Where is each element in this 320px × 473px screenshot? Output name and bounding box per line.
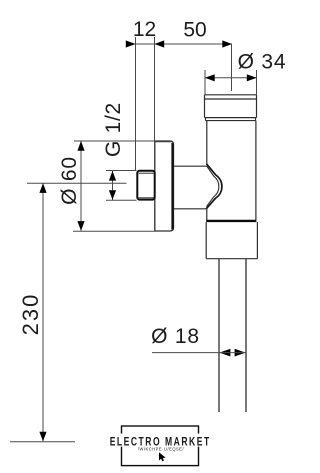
extension line D34 left [204,70,206,95]
extension line 230 bottom [10,441,75,443]
extension line D60 bottom [73,230,155,232]
arrow 50 right [222,40,232,47]
inlet housing top edge [174,165,207,167]
valve cap (push button housing) [205,95,257,118]
svg-text:Ø 18: Ø 18 [151,325,200,348]
arrow D60 up [77,141,84,151]
dimension line D34 [205,77,257,79]
svg-text:230: 230 [18,293,43,336]
extension line nut front face [135,37,137,170]
dimension line D18 [219,352,245,354]
svg-text:12: 12 [133,18,156,41]
svg-text:Ø 60: Ø 60 [58,156,81,205]
arrow D18 right [235,349,246,357]
svg-text:50: 50 [183,18,206,41]
arrow 230 up [39,183,46,193]
leader D18 [152,352,219,354]
extension line D34 right [256,70,258,95]
arrow D60 down [77,221,84,231]
dimension line G1/2 [112,171,114,200]
arrow D34 left [205,74,215,81]
inlet centre line [27,182,127,184]
arrow D34 right [247,74,257,81]
wall flange (rosette) [155,141,174,231]
inlet boss dome [206,164,222,209]
svg-text:/WIKCHPE·U/EQSE/: /WIKCHPE·U/EQSE/ [138,446,185,451]
svg-text:Ø 34: Ø 34 [238,51,287,74]
valve body tube [207,121,256,220]
extension line D60 top [74,140,155,142]
arrow G1/2 up [109,171,116,181]
joint shadow band [206,220,256,222]
dimension line 230 [42,183,44,441]
arrow G1/2 down [109,190,116,200]
union nut G1/2 [137,171,154,200]
coupling nut [206,222,257,259]
svg-text:G 1/2: G 1/2 [102,102,125,157]
cursor icon [159,452,166,461]
flush pipe [219,259,246,412]
arrow 230 down [39,432,46,442]
logo frame [122,426,199,466]
dimension line 12/50 [127,43,233,45]
dimension line D60 [80,141,82,231]
arrow 12 right [155,40,165,47]
extension tick G1/2 top [106,170,137,172]
arrow D18 left [219,349,230,357]
cap groove ring [206,118,256,121]
logo text background [109,434,211,447]
extension tick G1/2 bottom [106,199,137,201]
arrow 12 left [126,40,136,47]
extension line wall face [154,37,156,141]
inlet housing bottom edge [174,208,207,210]
leader to valve axis [231,44,233,91]
